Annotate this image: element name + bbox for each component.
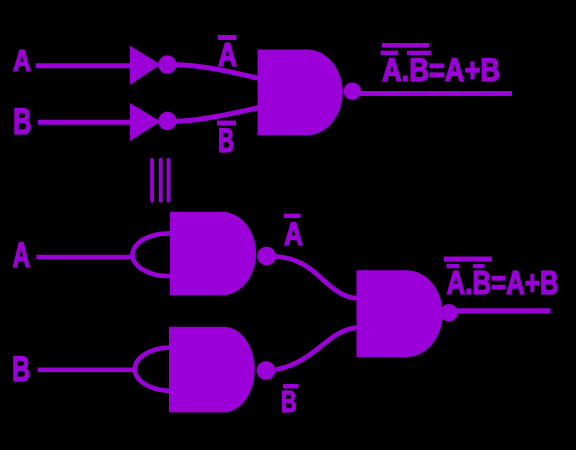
svg-text:B: B [12,350,30,389]
NAND gate U4 body [170,212,256,295]
node B-bar label (bottom) [281,384,299,419]
svg-text:B: B [13,101,32,142]
equivalence symbol [150,158,170,203]
node B-bar label (top) [217,121,236,161]
inverter U1 triangle [130,46,161,85]
wire A input (top) [36,63,133,68]
label overline(A-bar . B-bar) = A+B (top output) [381,43,500,88]
inverter U2 triangle [130,103,161,141]
svg-text:A: A [13,236,31,275]
inverter U2 bubble [158,112,176,130]
wire U5 output to U6 bottom input [276,328,359,370]
NAND gate U5 body [169,327,255,413]
svg-text:B: B [281,384,297,419]
wire B input (bottom) [38,367,135,372]
wire U4 output to U6 top input [276,257,359,299]
svg-text:A.B=A+B: A.B=A+B [447,264,559,301]
svg-text:A.B=A+B: A.B=A+B [382,52,500,88]
inverter U1 bubble [158,55,176,73]
node A-bar label (bottom) [284,214,303,252]
svg-text:A: A [284,216,303,252]
NAND gate U3 output bubble [344,83,361,100]
NAND gate U3 body [258,50,343,136]
svg-text:A: A [218,36,237,73]
label overline(A-bar . B-bar) = A+B (bottom output) [444,257,559,302]
svg-text:B: B [218,122,234,160]
wire U1 output to U3 top input [176,65,259,79]
wire A input (bottom) [37,255,136,260]
wire B input (top) [38,120,133,125]
wire U2 output to U3 bottom input [176,108,259,122]
NAND gate U5 output bubble [257,361,276,380]
wire U6 output (bottom circuit) [457,308,551,313]
wire input tie loop of U5 [135,348,171,391]
wire input tie loop of U4 [133,233,171,276]
NAND gate U6 output bubble [440,304,458,322]
svg-text:A: A [13,43,31,78]
NAND gate U4 output bubble [257,247,276,266]
node A-bar label (top) [218,35,237,73]
wire U3 output (top circuit) [360,91,512,96]
NAND gate U6 body [357,270,443,357]
